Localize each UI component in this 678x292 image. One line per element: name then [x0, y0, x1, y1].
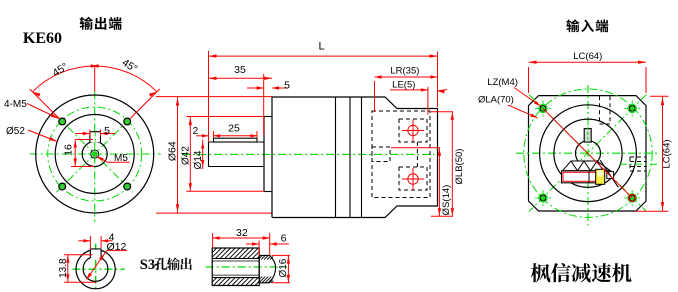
right view: outer circle	[540, 105, 637, 202]
detail: outer circle	[76, 250, 115, 289]
left view: center hole M5	[91, 150, 99, 158]
right view: inner circle	[554, 119, 622, 187]
dim 5 keyway width	[75, 133, 90, 135]
svg-text:L: L	[318, 41, 324, 53]
dim LC(64) top	[529, 61, 647, 63]
hidden square bottom hole	[399, 167, 427, 190]
svg-text:ØLB(50): ØLB(50)	[454, 149, 465, 185]
svg-text:5: 5	[104, 125, 110, 137]
sleeve hatch bottom band	[212, 278, 217, 283]
detail: bore circle Ø12	[83, 257, 108, 282]
dim 2 and 25	[196, 135, 209, 137]
middle view: flange face	[271, 97, 273, 218]
clamp side block	[607, 172, 614, 179]
dim 35	[209, 77, 273, 79]
sleeve hatch top band	[212, 248, 217, 253]
middle view: green centerline	[182, 153, 435, 155]
clamp zigzag collar	[563, 161, 611, 171]
sleeve: outer tube	[212, 248, 259, 286]
svg-text:LE(5): LE(5)	[392, 79, 415, 90]
svg-text:LZ(M4): LZ(M4)	[487, 77, 518, 88]
red ring bottom-right hole	[629, 194, 636, 201]
right view: vertical centerline	[587, 85, 589, 225]
dim 4 keyway	[78, 240, 90, 242]
Ø64 extension lines	[156, 96, 272, 98]
middle view: output shaft	[209, 142, 265, 167]
svg-text:LR(35): LR(35)	[390, 66, 419, 77]
dim 13.8	[67, 255, 69, 282]
right view: keyway slot	[584, 129, 591, 143]
dim LE(5)	[390, 89, 428, 91]
hidden side screw hole right	[630, 156, 647, 158]
title 输入端	[566, 19, 579, 32]
svg-text:LC(64): LC(64)	[573, 51, 602, 62]
svg-text:16: 16	[63, 144, 75, 156]
red vertical extension above circle	[94, 66, 96, 92]
hidden square top hole	[399, 119, 427, 142]
right view: horizontal centerline	[516, 152, 660, 154]
dim Ø14	[202, 140, 204, 170]
svg-text:32: 32	[236, 227, 248, 239]
dimension 45-degree arc left	[33, 66, 95, 92]
left view: shaft keyway tab	[90, 132, 101, 143]
cap hatch top	[259, 255, 262, 258]
svg-text:LC(64): LC(64)	[661, 139, 672, 168]
dim LC(64) right	[662, 96, 664, 211]
title 输出端	[80, 17, 93, 30]
left view: shaft circle	[82, 142, 107, 167]
middle view: internal seams	[335, 97, 337, 218]
cap hatch bottom	[259, 277, 262, 280]
svg-text:ØS(14): ØS(14)	[441, 185, 452, 216]
left view: outer circle Ø64	[36, 95, 154, 213]
red extension diagonals at 45deg	[30, 89, 60, 119]
svg-text:M5: M5	[114, 153, 128, 164]
svg-text:Ø16: Ø16	[278, 258, 289, 277]
dim Ø42	[189, 117, 191, 191]
hidden input bore	[372, 147, 390, 162]
middle view: body outline	[272, 97, 438, 218]
left view: horizontal centerline	[30, 153, 161, 155]
corner holes LZ(M4)	[539, 104, 547, 112]
svg-text:Ø14: Ø14	[193, 150, 204, 169]
dim 32	[213, 237, 270, 239]
svg-text:ØLA(70): ØLA(70)	[478, 95, 514, 106]
left view: vertical centerline	[94, 92, 96, 223]
left view: 4 bolt holes 4-M5	[59, 118, 66, 125]
left view: diagonal centerlines	[57, 116, 133, 192]
svg-text:Ø52: Ø52	[6, 126, 25, 137]
clamp arm diagonal	[600, 160, 618, 187]
right view: hub bore circle	[576, 141, 601, 166]
right view: LA(70) circle green	[524, 89, 652, 217]
sleeve: end cap	[259, 255, 275, 282]
dim Ø64 vertical	[177, 97, 179, 214]
dim 5 (boss)	[247, 87, 264, 89]
svg-text:5: 5	[284, 80, 290, 92]
clamp screw yellow	[596, 169, 605, 184]
sleeve: bore lines	[212, 258, 259, 260]
svg-text:S3: S3	[140, 257, 155, 273]
dim 6 cap	[246, 243, 259, 245]
left view: mid circle Ø52	[55, 115, 134, 194]
right view: flange plate with chamfered corners	[529, 96, 647, 211]
svg-text:2: 2	[193, 126, 199, 137]
dim 16 vertical	[74, 140, 76, 167]
svg-text:KE60: KE60	[23, 30, 62, 47]
title 枫信减速机	[531, 263, 551, 282]
dimension 45-degree arc right	[95, 66, 157, 92]
dim L	[209, 55, 438, 57]
dim ØS(14)	[438, 148, 440, 217]
right view: diagonal centerlines	[529, 95, 647, 212]
label Ø12 with diameter leader	[87, 251, 107, 280]
svg-text:4-M5: 4-M5	[4, 99, 27, 110]
clamp bar	[562, 171, 598, 183]
detail: green crosshair	[73, 268, 125, 270]
svg-text:6: 6	[281, 233, 287, 245]
sleeve: green centerline	[206, 266, 287, 268]
middle view: hidden outline of adapter	[372, 111, 430, 198]
svg-text:Ø64: Ø64	[166, 141, 178, 161]
hidden top slot	[599, 96, 601, 124]
red screw hole bottom	[408, 174, 418, 184]
label M5 center tap with leader	[97, 156, 108, 162]
middle view: pilot boss face	[263, 117, 265, 192]
dim Ø16	[287, 256, 289, 283]
svg-text:25: 25	[228, 123, 240, 135]
middle view: shaft key	[214, 138, 258, 142]
dim LR(35)	[375, 76, 438, 78]
red diagonal through LZ holes	[543, 108, 632, 198]
dim ØLB(50)	[451, 112, 453, 217]
svg-text:Ø12: Ø12	[106, 241, 126, 253]
detail: keyway slot	[90, 249, 101, 258]
svg-text:Ø42: Ø42	[180, 146, 191, 165]
red screw hole top	[408, 125, 418, 135]
svg-text:13.8: 13.8	[58, 258, 69, 278]
svg-text:35: 35	[234, 64, 246, 76]
left view: bolt circle (green dash-dot)	[48, 107, 142, 201]
